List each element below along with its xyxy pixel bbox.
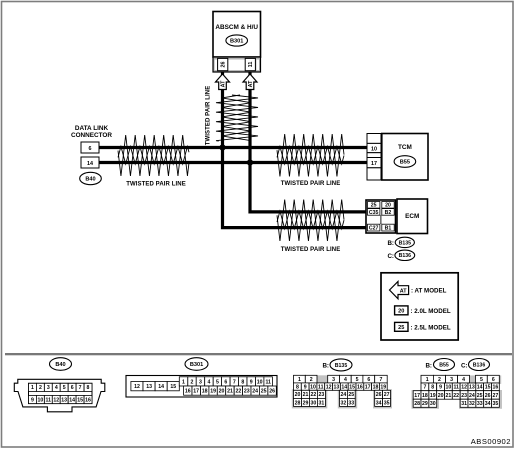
svg-text:CONNECTOR: CONNECTOR [71,132,112,139]
svg-text:C:: C: [461,362,468,369]
svg-text:23: 23 [461,393,467,399]
svg-text:9: 9 [31,397,34,403]
svg-text:1: 1 [426,377,429,383]
svg-text:21: 21 [227,389,233,395]
svg-text:11: 11 [453,385,459,391]
svg-text:26: 26 [220,62,226,68]
svg-text:7: 7 [233,379,236,385]
svg-text:32: 32 [341,400,347,406]
svg-text:ECM: ECM [405,213,419,220]
svg-text:21: 21 [446,393,452,399]
svg-text:9: 9 [250,379,253,385]
svg-text:20: 20 [295,392,301,398]
svg-text:23: 23 [319,392,325,398]
svg-text:14: 14 [69,397,75,403]
svg-text:12: 12 [461,385,467,391]
svg-text:10: 10 [257,379,263,385]
svg-text:12: 12 [326,385,332,391]
svg-text:18: 18 [373,385,379,391]
svg-text:10: 10 [38,397,44,403]
svg-text:6: 6 [224,379,227,385]
svg-text:7: 7 [423,385,426,391]
svg-text:6: 6 [367,377,370,383]
svg-text:14: 14 [158,384,164,390]
svg-text:AT: AT [248,80,254,87]
svg-text:28: 28 [295,400,301,406]
svg-text:19: 19 [380,385,386,391]
svg-text:TWISTED PAIR LINE: TWISTED PAIR LINE [126,182,186,188]
svg-text:24: 24 [252,389,258,395]
svg-text:15: 15 [349,385,355,391]
svg-text:25: 25 [398,325,404,331]
svg-text:5: 5 [216,379,219,385]
svg-text:24: 24 [469,393,475,399]
svg-text:30: 30 [430,401,436,407]
svg-text:B135: B135 [399,240,412,246]
svg-text:3: 3 [199,379,202,385]
svg-text:10: 10 [446,385,452,391]
svg-text:13: 13 [61,397,67,403]
svg-text:B136: B136 [399,253,412,259]
svg-text:B40: B40 [55,362,65,368]
svg-text:20: 20 [385,203,391,209]
svg-text:20: 20 [398,309,404,315]
svg-text:1: 1 [182,379,185,385]
svg-text:13: 13 [469,385,475,391]
svg-text:33: 33 [348,400,354,406]
svg-text:32: 32 [469,401,475,407]
svg-text:21: 21 [303,392,309,398]
svg-text:19: 19 [430,393,436,399]
svg-text:4: 4 [344,377,347,383]
svg-text:25: 25 [261,389,267,395]
svg-text:1: 1 [31,385,34,391]
svg-text:8: 8 [296,385,299,391]
svg-text:33: 33 [477,401,483,407]
svg-text:14: 14 [87,161,93,167]
svg-text:17: 17 [193,389,199,395]
svg-text:B301: B301 [190,362,203,368]
svg-text:15: 15 [485,385,491,391]
svg-text:26: 26 [376,392,382,398]
svg-text:16: 16 [493,385,499,391]
svg-text:8: 8 [87,385,90,391]
svg-text:8: 8 [431,385,434,391]
svg-text:B40: B40 [85,177,95,183]
svg-text:ABSCM & H/U: ABSCM & H/U [215,24,258,31]
svg-text:11: 11 [318,385,324,391]
svg-text:B2: B2 [385,210,392,216]
svg-text:6: 6 [492,377,495,383]
svg-text:C27: C27 [369,226,379,232]
svg-text:16: 16 [85,397,91,403]
svg-text:TWISTED PAIR LINE: TWISTED PAIR LINE [206,86,212,146]
svg-text:2: 2 [39,385,42,391]
svg-text:22: 22 [311,392,317,398]
svg-text:12: 12 [53,397,59,403]
svg-text:18: 18 [202,389,208,395]
svg-text:22: 22 [236,389,242,395]
svg-text:1: 1 [298,377,301,383]
svg-text:9: 9 [304,385,307,391]
svg-text:B136: B136 [473,362,486,368]
svg-text:29: 29 [303,400,309,406]
svg-text:17: 17 [365,385,371,391]
svg-text:17: 17 [414,393,420,399]
svg-text:27: 27 [384,392,390,398]
svg-text:13: 13 [146,384,152,390]
svg-text:15: 15 [77,397,83,403]
svg-text:B1: B1 [385,226,392,232]
svg-text:16: 16 [185,389,191,395]
svg-text:13: 13 [334,385,340,391]
svg-text:C35: C35 [369,210,379,216]
svg-text:5: 5 [63,385,66,391]
svg-text:3: 3 [47,385,50,391]
svg-text:7: 7 [379,377,382,383]
svg-text:3: 3 [450,377,453,383]
svg-text:19: 19 [210,389,216,395]
svg-text:11: 11 [265,379,271,385]
svg-text:: AT MODEL: : AT MODEL [411,288,447,295]
svg-text:18: 18 [422,393,428,399]
svg-text:B:: B: [322,362,329,369]
svg-text:B55: B55 [439,362,449,368]
svg-text:: 2.0L MODEL: : 2.0L MODEL [411,308,451,315]
svg-text:TWISTED PAIR LINE: TWISTED PAIR LINE [281,181,341,187]
svg-text:3: 3 [332,377,335,383]
svg-text:2: 2 [310,377,313,383]
svg-text:B135: B135 [335,363,348,369]
svg-text:10: 10 [310,385,316,391]
svg-text:34: 34 [485,401,491,407]
svg-text:ABS00902: ABS00902 [471,437,511,446]
svg-text:16: 16 [357,385,363,391]
svg-text:27: 27 [493,393,499,399]
svg-text:B55: B55 [400,160,410,166]
svg-text:35: 35 [493,401,499,407]
svg-text:12: 12 [134,384,140,390]
svg-text:6: 6 [89,146,92,152]
svg-text:15: 15 [170,384,176,390]
svg-text:25: 25 [477,393,483,399]
svg-text:B301: B301 [230,39,243,45]
svg-text:23: 23 [244,389,250,395]
svg-text:26: 26 [485,393,491,399]
svg-text:2: 2 [191,379,194,385]
svg-text:31: 31 [319,400,325,406]
svg-text:17: 17 [371,161,377,167]
svg-text:: 2.5L MODEL: : 2.5L MODEL [411,325,451,332]
svg-text:8: 8 [241,379,244,385]
svg-text:4: 4 [207,379,210,385]
svg-text:20: 20 [219,389,225,395]
svg-text:26: 26 [269,389,275,395]
svg-text:5: 5 [356,377,359,383]
svg-text:7: 7 [79,385,82,391]
svg-text:9: 9 [439,385,442,391]
svg-text:B:: B: [425,362,432,369]
svg-text:DATA LINK: DATA LINK [75,125,109,132]
svg-text:2: 2 [438,377,441,383]
svg-text:10: 10 [371,146,377,152]
svg-text:25: 25 [348,392,354,398]
svg-text:28: 28 [414,401,420,407]
svg-text:14: 14 [477,385,483,391]
svg-text:C:: C: [387,253,394,260]
svg-text:4: 4 [462,377,465,383]
svg-text:6: 6 [71,385,74,391]
svg-text:11: 11 [46,397,52,403]
svg-text:31: 31 [461,401,467,407]
svg-text:AT: AT [220,80,226,87]
svg-text:B:: B: [387,240,394,247]
svg-text:11: 11 [248,62,254,68]
svg-text:14: 14 [341,385,347,391]
svg-text:24: 24 [341,392,347,398]
svg-text:34: 34 [376,400,382,406]
svg-text:25: 25 [371,203,377,209]
svg-text:4: 4 [55,385,58,391]
svg-text:29: 29 [422,401,428,407]
svg-text:AT: AT [400,288,407,294]
svg-text:20: 20 [438,393,444,399]
svg-text:22: 22 [453,393,459,399]
svg-text:30: 30 [311,400,317,406]
svg-text:35: 35 [384,400,390,406]
svg-text:5: 5 [480,377,483,383]
svg-text:TCM: TCM [398,144,412,151]
svg-text:TWISTED PAIR LINE: TWISTED PAIR LINE [281,247,341,253]
